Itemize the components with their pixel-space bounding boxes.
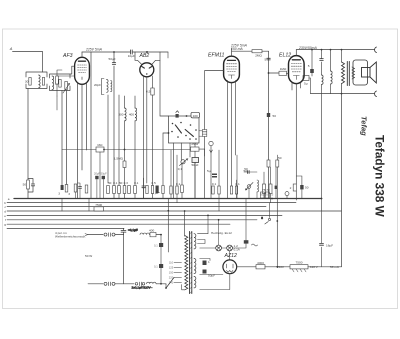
- svg-text:0,3: 0,3: [124, 181, 129, 185]
- resistor bus row N1: [170, 186, 172, 194]
- volume potentiometer: [178, 159, 188, 171]
- junction x277 div: [276, 266, 278, 268]
- svg-text:50: 50: [273, 114, 277, 118]
- AB2 right line: [152, 76, 154, 199]
- tube EFM11 envelope: [224, 56, 240, 82]
- dial lamp 2: [227, 245, 233, 251]
- IF transformer T1: [94, 79, 112, 95]
- resistor AF couple 1: [263, 184, 266, 194]
- junction heater bus: [207, 215, 209, 217]
- EL12 grid wire: [269, 72, 280, 74]
- svg-text:MΩ: MΩ: [98, 143, 104, 147]
- bus end junction: [321, 198, 323, 200]
- svg-text:0,5: 0,5: [151, 181, 156, 185]
- resistor AF couple 2: [269, 184, 272, 194]
- svg-text:50µ 50µ 0,5: 50µ 50µ 0,5: [260, 194, 274, 197]
- x205 lower drop: [204, 137, 206, 199]
- speaker driver: [362, 62, 377, 83]
- antenna lead-in wire: [13, 52, 43, 73]
- choke x133 leads: [134, 96, 136, 199]
- B+ rail 1: [82, 51, 130, 53]
- divider right wire: [308, 266, 342, 268]
- wire coil1 to ground drop: [27, 89, 29, 181]
- resistor gang line row: [85, 185, 88, 193]
- tuned circuit2 top wire: [50, 66, 75, 78]
- cap to chassis at mains: [121, 228, 138, 235]
- junction rail1: [146, 51, 148, 53]
- junction x323 rail3: [321, 49, 323, 51]
- svg-text:78 72: 78 72: [262, 188, 270, 192]
- svg-text:225V 5mA: 225V 5mA: [85, 47, 103, 51]
- AB2 left plate lead: [135, 52, 142, 64]
- capacitor x323: [320, 59, 324, 61]
- coupling cap block x276: [275, 186, 278, 189]
- cap block 50µF: [203, 270, 216, 278]
- capacitor mains branch2 (block): [154, 264, 163, 269]
- AZ12 anode feed2: [200, 274, 223, 276]
- jack drop: [210, 146, 212, 199]
- bus line e: [7, 214, 282, 216]
- trimmer cap antenna: [42, 78, 44, 86]
- cap branch vertical x161: [160, 235, 162, 284]
- dial lamp 1: [216, 245, 222, 251]
- variable cap with arrow: [63, 82, 70, 94]
- x277 above bus: [276, 155, 278, 199]
- drop x270: [270, 167, 272, 203]
- mains lead top: [88, 234, 103, 236]
- choke x124 leads: [124, 96, 126, 199]
- svg-text:AB2: AB2: [139, 53, 150, 59]
- tone switch contact: [261, 216, 270, 224]
- resistor bottom left3: [65, 185, 70, 197]
- resistor 1,5MΩ: [114, 157, 126, 168]
- svg-text:a: a: [8, 197, 10, 201]
- svg-text:7500: 7500: [95, 203, 102, 207]
- svg-text:1: 1: [208, 260, 210, 264]
- capacitor 100 above switch box: [191, 112, 200, 118]
- capacitor bus row La: [142, 186, 145, 188]
- AZ12 anode feed1: [200, 259, 210, 261]
- svg-text:5: 5: [264, 58, 266, 62]
- AZ12 output: [237, 266, 256, 268]
- field coil drop x341: [341, 94, 343, 211]
- svg-text:1MΩ: 1MΩ: [280, 67, 287, 71]
- svg-text:Heizleitg. EL12: Heizleitg. EL12: [211, 231, 232, 235]
- svg-text:5µ: 5µ: [207, 169, 211, 173]
- junction x277 d: [276, 220, 278, 222]
- svg-text:3: 3: [68, 192, 70, 196]
- junction x341 return: [341, 93, 343, 95]
- coil on x205: [202, 130, 206, 137]
- MΩ leads: [99, 152, 101, 199]
- mains top to primary: [150, 234, 161, 236]
- resistor bus row M2: [151, 181, 156, 194]
- tone switch stub: [269, 203, 271, 218]
- bus line g: [7, 223, 230, 225]
- secondary heater winding: [194, 277, 196, 288]
- junction bus x272: [271, 198, 273, 200]
- junction AVC x104: [103, 149, 105, 151]
- capacitor 50µF: [112, 63, 115, 65]
- capacitor bottom left1: [31, 184, 34, 186]
- selector pivot: [165, 287, 167, 289]
- wire 5µ to return: [309, 78, 311, 94]
- svg-text:3: 3: [58, 192, 60, 196]
- lamp2 bottom link: [229, 251, 231, 260]
- primary series coil: [140, 233, 150, 235]
- resistor 4000: [256, 261, 265, 269]
- rail1 end cap lead: [167, 52, 169, 58]
- svg-text:Wellenbereichsumsch.: Wellenbereichsumsch.: [55, 234, 86, 238]
- drop x219: [218, 150, 220, 211]
- svg-text:0,1: 0,1: [235, 182, 240, 186]
- svg-text:0,1: 0,1: [113, 181, 118, 185]
- selector feed: [165, 285, 167, 289]
- secondary top lead: [198, 215, 209, 233]
- resistor bus row N2: [176, 182, 181, 194]
- svg-text:50: 50: [244, 169, 248, 173]
- resistor AB2 load: [146, 88, 154, 95]
- transformer bottom lead: [341, 84, 343, 94]
- svg-text:EL12: EL12: [279, 53, 291, 59]
- capacitor 20µF block: [95, 176, 98, 179]
- cathode bypass cap black: [300, 185, 303, 189]
- line filter coil: [147, 282, 157, 284]
- tone coil x330: [331, 71, 333, 84]
- choke coil x124: [118, 108, 126, 121]
- contact block on box top: [176, 111, 179, 118]
- svg-text:400: 400: [129, 112, 134, 116]
- svg-text:5: 5: [261, 216, 263, 220]
- mains lead bottom: [88, 283, 103, 285]
- wire 50uF drop: [113, 52, 115, 199]
- svg-text:AF3: AF3: [62, 53, 73, 59]
- resistor bus row L2: [113, 181, 118, 194]
- antenna coil unit1 bottom wire: [26, 84, 47, 89]
- wire AF3 left small drop: [56, 96, 58, 110]
- svg-text:400: 400: [149, 229, 154, 233]
- svg-text:=0,1µF: =0,1µF: [128, 228, 138, 232]
- tuned circuit2 bottom wire: [50, 86, 71, 91]
- 2MΩ det corner: [199, 149, 205, 156]
- secondary HT winding: [194, 234, 196, 249]
- mains switch vertical: [123, 235, 125, 284]
- cap row La leads: [143, 178, 145, 199]
- resistor 400 box mains: [149, 229, 156, 237]
- drop x171: [170, 150, 172, 199]
- coil near x252: [257, 180, 259, 192]
- cathode cap branch: [296, 176, 302, 199]
- svg-text:2MΩ: 2MΩ: [191, 142, 198, 146]
- coil L1 antenna: [39, 75, 41, 88]
- lamp2 out wire: [233, 244, 247, 248]
- svg-text:50: 50: [305, 186, 309, 190]
- svg-text:125: 125: [169, 266, 174, 270]
- drop x237: [236, 155, 238, 199]
- cap50 drop: [194, 163, 196, 199]
- suppressor top: [104, 233, 115, 237]
- svg-text:50µF: 50µF: [208, 274, 215, 278]
- speaker terminal top: [375, 47, 377, 53]
- resistor bus row M1: [146, 186, 148, 194]
- cap block 1µ: [203, 260, 211, 265]
- caps pair leads: [97, 179, 103, 198]
- lamp link wire: [222, 247, 227, 249]
- psu right vertical: [341, 211, 343, 267]
- svg-text:0,1: 0,1: [134, 181, 139, 185]
- switch contacts inside box: [171, 122, 197, 140]
- resistor bus row N5: [230, 186, 232, 194]
- svg-text:2MΩ: 2MΩ: [255, 54, 262, 58]
- resistor pot drop: [181, 185, 184, 193]
- svg-text:e: e: [4, 214, 6, 218]
- svg-text:10µF: 10µF: [128, 54, 135, 58]
- suppressor bottom: [104, 282, 115, 286]
- resistor bus row L4: [123, 181, 128, 194]
- svg-text:5µ: 5µ: [304, 82, 308, 86]
- transformer core: [190, 232, 192, 294]
- svg-text:5: 5: [308, 64, 310, 68]
- coil on x323: [322, 75, 324, 84]
- AF3 pin row leads: [76, 183, 81, 199]
- B+ rail 3 to speaker terminal: [296, 49, 374, 51]
- svg-text:110: 110: [169, 261, 174, 265]
- svg-text:50µF: 50µF: [109, 57, 116, 61]
- output transformer secondary: [352, 67, 355, 79]
- tube AB2 envelope: [140, 63, 154, 77]
- padder cap input: [55, 80, 61, 88]
- line filter caps: [132, 282, 153, 290]
- primary top lead: [184, 235, 186, 237]
- mains lead top b: [115, 234, 124, 236]
- resistor bus row N3: [212, 182, 217, 194]
- resistor EL12 cathode: [290, 184, 297, 191]
- capacitor block x312: [310, 69, 314, 73]
- switch left exit: [168, 132, 170, 134]
- x330 drop: [330, 50, 332, 94]
- capacitor 5000 on x268: [264, 58, 270, 62]
- power transformer primary: [185, 236, 188, 290]
- svg-text:16µF: 16µF: [326, 243, 333, 247]
- bus line d: [7, 210, 341, 212]
- coupling cap rail1: [128, 50, 135, 58]
- coil 257 drop: [256, 192, 258, 199]
- resistor AF3 pin row: [74, 184, 77, 192]
- wire circuit2 right drop: [66, 91, 68, 185]
- resistor 2MΩ: [252, 50, 262, 58]
- capacitor 50µF box: [191, 158, 198, 168]
- link y172: [244, 171, 257, 173]
- tube AZ12 envelope: [223, 260, 237, 274]
- connector x62 bus: [61, 199, 63, 212]
- drop x177: [176, 155, 178, 203]
- MΩ left wire (AVC line): [62, 149, 191, 151]
- voltage selector arm: [166, 278, 174, 289]
- capacitor 5µ beside EL12: [303, 76, 309, 86]
- meter circle above bus: [285, 192, 289, 199]
- screen feed drop x91: [90, 52, 92, 199]
- AB2 right plate lead: [152, 60, 160, 64]
- svg-text:50: 50: [119, 181, 123, 185]
- svg-text:AZ12: AZ12: [224, 253, 238, 259]
- svg-text:0,5: 0,5: [146, 90, 151, 94]
- capacitor link 50: [244, 167, 249, 174]
- x268 long drop: [268, 51, 270, 198]
- junction x268 grid: [268, 72, 270, 74]
- svg-text:50: 50: [108, 181, 112, 185]
- svg-text:7500: 7500: [296, 261, 303, 265]
- switch box left lead: [163, 133, 169, 199]
- EL12 pin drops: [292, 83, 301, 201]
- resistor 2MΩ det: [191, 142, 200, 151]
- resistor bus row N6: [235, 182, 240, 194]
- AF3 pin drop 1: [77, 83, 79, 199]
- output transformer core: [347, 62, 349, 86]
- svg-text:0,1: 0,1: [154, 265, 158, 269]
- resistor 1MΩ grid EL12: [279, 67, 287, 76]
- switch box right exit: [199, 131, 202, 136]
- speaker return wire: [311, 93, 375, 95]
- svg-text:0,1: 0,1: [212, 182, 217, 186]
- junction mains x161 bot: [160, 283, 162, 285]
- EL12 grid wire b: [287, 72, 289, 74]
- B+ rail 2b: [262, 50, 269, 52]
- primary feed drop: [184, 211, 186, 236]
- EFM11 anode lead: [232, 48, 253, 56]
- AF3 cathode components wire: [57, 70, 75, 96]
- coil L2 input: [52, 76, 54, 90]
- svg-text:Tefadyn 338 W: Tefadyn 338 W: [373, 135, 387, 218]
- grid coupling cap x268: [267, 113, 270, 117]
- x323 drop: [321, 50, 323, 211]
- svg-text:50: 50: [23, 183, 27, 187]
- resistor bus row L5: [128, 186, 131, 194]
- junction x330 rail3: [330, 49, 332, 51]
- svg-text:20pF: 20pF: [94, 83, 101, 87]
- junction selector feed: [167, 210, 169, 212]
- svg-text:EFM11: EFM11: [208, 53, 224, 59]
- AF3 pin drop 2: [81, 84, 83, 170]
- voltage divider chain: [290, 261, 308, 272]
- svg-text:150: 150: [169, 271, 174, 275]
- bus line c: [7, 206, 266, 208]
- drop x236: [236, 180, 238, 199]
- resistor block MΩ left: [96, 143, 104, 152]
- mains lead bottom b: [115, 283, 134, 285]
- resistor AF3 cathode: [56, 76, 59, 84]
- switch box top junction: [186, 115, 188, 117]
- svg-text:0,1: 0,1: [176, 182, 181, 186]
- lamp1 top feed: [218, 220, 220, 245]
- jack circle: [209, 141, 213, 145]
- bus line b: [7, 202, 296, 204]
- svg-text:20µF 50µF: 20µF 50µF: [94, 172, 107, 176]
- svg-text:2x0,1µF/110V~: 2x0,1µF/110V~: [132, 286, 153, 290]
- bus line f: [7, 219, 257, 221]
- drop x264: [263, 172, 265, 199]
- svg-text:f: f: [5, 218, 6, 222]
- capacitor block left2 (dark): [58, 185, 63, 196]
- x341 drop segment: [341, 50, 343, 62]
- tube EL12 envelope: [289, 56, 305, 84]
- AZ12 heater from secondary: [200, 274, 230, 290]
- drop x276: [275, 160, 277, 199]
- junction x312 rail3: [311, 49, 313, 51]
- resistor on x268: [267, 160, 270, 167]
- resistor bus row L1: [107, 181, 112, 194]
- junction x114 rail1: [113, 51, 115, 53]
- selector feed drop: [167, 199, 169, 253]
- wire x119 drop: [118, 95, 120, 199]
- svg-text:2: 2: [290, 186, 292, 190]
- resistor on x277: [276, 156, 282, 167]
- output transformer primary winding: [342, 62, 345, 84]
- bus line h: [7, 227, 124, 229]
- resistor 7500 on bus: [94, 203, 104, 211]
- bus chassis (thick): [14, 198, 322, 200]
- svg-text:30: 30: [25, 79, 29, 83]
- x312 stub: [311, 50, 313, 76]
- grid line drop x205: [204, 71, 206, 130]
- resistor bus row N4: [218, 186, 220, 194]
- switch box drops: [174, 143, 196, 199]
- volume pot right: [244, 169, 254, 190]
- pot drop 249: [248, 188, 250, 198]
- resistor bus row L6: [134, 181, 139, 194]
- junction AB2 rail: [146, 51, 148, 53]
- capacitor mains branch1 (block): [154, 243, 163, 248]
- primary bottom lead: [182, 285, 185, 290]
- svg-text:A: A: [9, 46, 13, 51]
- connector x89 bus: [88, 199, 90, 212]
- wire circuit2 left drop: [61, 91, 63, 186]
- smoothing cap top right: [244, 240, 258, 246]
- arrowhead on jack line: [210, 150, 213, 153]
- speaker terminal bottom: [375, 91, 377, 97]
- wire x108 drop: [107, 95, 109, 183]
- EFM11 grid wire: [205, 70, 224, 72]
- lamp feed wire: [200, 247, 216, 249]
- svg-text:50 W: 50 W: [85, 254, 92, 258]
- resistor bus row M3: [162, 186, 164, 194]
- mains to selector: [156, 283, 166, 286]
- dark block x157: [155, 186, 160, 195]
- AF3 grid cap lead: [81, 52, 83, 58]
- pot drop: [181, 164, 183, 199]
- B+ to divider: [265, 266, 290, 268]
- arrow to band switch: [85, 234, 88, 236]
- x277 psu drop: [276, 199, 278, 267]
- coupling cap pair on x213: [207, 169, 217, 178]
- capacitor 16µF: [320, 243, 324, 245]
- resistor antenna damping: [25, 78, 31, 86]
- tube AF3 envelope: [75, 57, 90, 84]
- AF3 pin drop 3: [86, 83, 88, 151]
- x323 16uF drop: [321, 211, 323, 267]
- voltage selector taps: [169, 261, 182, 285]
- EFM11 pin drops: [228, 81, 236, 199]
- resistor bottom left1: [23, 180, 30, 189]
- svg-text:4000: 4000: [257, 261, 264, 265]
- svg-text:150 mA: 150 mA: [231, 47, 243, 51]
- junction primary feed: [184, 210, 186, 212]
- wire x160 drop: [160, 52, 169, 116]
- svg-text:Tefag: Tefag: [360, 116, 369, 136]
- svg-text:100: 100: [193, 114, 198, 118]
- choke coil x133: [129, 108, 137, 121]
- junction lamp feed bus: [218, 219, 220, 221]
- B+ rail 1b: [132, 51, 168, 53]
